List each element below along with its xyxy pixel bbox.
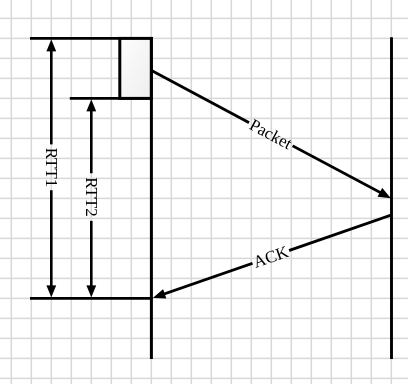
transmission end line (send finish) [70, 97, 153, 100]
top event line (send start) [30, 37, 153, 40]
packet transmission rect [120, 38, 152, 98]
RTT1 dimension arrow [46, 39, 56, 297]
receiver timeline (right vertical line) [390, 37, 393, 359]
svg-text:RTT2: RTT2 [82, 177, 101, 217]
bottom event line (ACK arrival) [30, 297, 153, 300]
ACK arrow (receiver to sender) [161, 215, 391, 295]
ACK arrowhead [153, 289, 166, 298]
sender timeline (left vertical line) [150, 37, 153, 359]
Packet arrow (sender to receiver) [151, 70, 383, 194]
svg-text:RTT1: RTT1 [42, 148, 61, 188]
Packet arrowhead [378, 188, 391, 198]
RTT2 dimension arrow [86, 99, 96, 297]
